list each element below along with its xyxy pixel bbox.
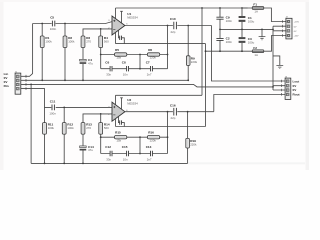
wire inverting input line: [83, 29, 112, 36]
svg-text:C5: C5: [50, 16, 54, 20]
resistor R16: [147, 131, 159, 143]
svg-text:120k: 120k: [150, 56, 157, 60]
svg-text:R15: R15: [115, 131, 121, 135]
svg-text:15k: 15k: [116, 138, 121, 142]
wire Lout routing: [212, 26, 286, 82]
connector J1 (input): [15, 72, 21, 95]
svg-text:100k: 100k: [48, 126, 55, 130]
svg-text:120k: 120k: [150, 138, 157, 142]
svg-text:2n7: 2n7: [147, 157, 152, 161]
capacitor comp loop bottom: [119, 117, 125, 127]
node bus-R9: [187, 79, 189, 81]
node bus-R1: [41, 79, 43, 81]
wire 0V mid rail: [220, 28, 273, 30]
wire input top line: [33, 22, 112, 24]
node 0V-C9: [219, 29, 221, 31]
resistor R19: [186, 111, 197, 164]
resistor R1: [40, 24, 52, 81]
resistor R4: [99, 29, 109, 55]
capacitor comp loop: [119, 30, 125, 43]
wire V+ rail: [116, 7, 248, 9]
wire R4 node down to cap row: [100, 55, 102, 69]
svg-text:C10: C10: [170, 17, 176, 21]
svg-text:F1: F1: [253, 3, 257, 7]
node output-R9: [187, 25, 189, 27]
svg-text:C12: C12: [105, 145, 111, 149]
svg-text:100k: 100k: [67, 126, 74, 130]
wire top ground bus: [42, 79, 188, 81]
node 0V-bottom-drop: [30, 84, 32, 86]
node Vminus-C3: [241, 50, 243, 52]
wire 0V drop to bottom rail: [30, 84, 32, 163]
wire feedback row bottom: [101, 136, 168, 138]
capacitor C8: [122, 60, 129, 76]
svg-text:220k: 220k: [190, 143, 197, 147]
node row-left bottom: [100, 136, 102, 138]
svg-text:NE5534: NE5534: [127, 15, 138, 19]
wire bottom ground rail: [31, 162, 188, 164]
svg-text:R5: R5: [115, 48, 119, 52]
wire op-amp pin5 stub: [120, 11, 123, 23]
connector J2 (power): [286, 17, 293, 39]
node input-R1: [41, 23, 43, 25]
svg-text:100k: 100k: [68, 40, 75, 44]
svg-text:NE5534: NE5534: [127, 102, 138, 106]
capacitor C15: [122, 145, 129, 161]
wire bottom pin8 rail: [116, 94, 203, 96]
capacitor C9: [216, 8, 232, 29]
node minus-R4: [100, 28, 102, 30]
capacitor C7: [146, 60, 153, 76]
svg-text:33n: 33n: [106, 73, 111, 77]
resistor R9: [186, 25, 197, 81]
wire capacitor row: [101, 68, 168, 70]
svg-text:22p: 22p: [171, 116, 176, 120]
node 0V-ground: [261, 29, 263, 31]
wire op-amp pin8 to rail: [115, 95, 117, 105]
svg-text:47u: 47u: [88, 62, 93, 66]
resistor R5: [115, 48, 127, 60]
wire 0V long line from J1 pin3: [21, 84, 273, 87]
resistor R3: [81, 36, 91, 48]
svg-text:C11: C11: [50, 100, 56, 104]
svg-text:100n: 100n: [50, 27, 57, 31]
node Vplus-C1: [241, 7, 243, 9]
wire output line bottom: [125, 111, 214, 113]
node 0V-C1: [241, 29, 243, 31]
wire V- line top opamp: [116, 43, 206, 45]
capacitor C14 electrolytic: [80, 134, 94, 163]
node output-feedback: [167, 25, 169, 27]
svg-text:C8: C8: [122, 60, 126, 64]
wire 0V pin2 to bus: [21, 79, 42, 81]
capacitor C10 series: [170, 17, 177, 34]
node 0V-rail-drop: [272, 29, 274, 31]
connector J3 (output): [285, 77, 291, 100]
node Vminus-C2: [219, 50, 221, 52]
resistor R2: [63, 24, 75, 81]
node output-feedback bottom: [167, 111, 169, 113]
node rail-R11: [44, 163, 46, 165]
node caprow-mid bottom: [139, 153, 141, 155]
svg-text:560: 560: [104, 126, 109, 130]
fuse F1: [252, 3, 264, 14]
wire 0V stubs to J2: [273, 26, 286, 31]
node caprow-mid: [139, 68, 141, 70]
wire V- line bottom opamp: [116, 126, 206, 128]
capacitor C1 electrolytic: [239, 8, 255, 29]
resistor R11: [43, 107, 55, 163]
ground: [259, 29, 266, 39]
node Vplus-C9: [219, 7, 221, 9]
wire V+ vertical to bottom channel: [201, 8, 203, 95]
node feedback-row-right: [167, 54, 169, 56]
svg-text:100n: 100n: [226, 19, 233, 23]
svg-text:100u: 100u: [248, 40, 255, 44]
resistor R13: [81, 122, 92, 134]
wire feedback vertical: [167, 26, 169, 69]
svg-text:270: 270: [86, 40, 91, 44]
wire V- rail: [205, 44, 207, 127]
svg-text:1A: 1A: [254, 53, 258, 57]
wire capacitor row bottom: [101, 153, 168, 155]
svg-text:33n: 33n: [106, 157, 111, 161]
svg-text:47u: 47u: [88, 148, 93, 152]
node 0V-J3: [272, 86, 274, 88]
svg-text:C16: C16: [170, 103, 176, 107]
wire op-amp pin5 stub bottom: [120, 98, 123, 110]
svg-text:Rin: Rin: [4, 84, 9, 88]
node input-R2: [64, 23, 66, 25]
node input-R12: [63, 107, 65, 109]
node feedback-row-right bottom: [167, 136, 169, 138]
svg-text:F2: F2: [253, 46, 257, 50]
wire op-amp pin4 down bottom: [115, 119, 117, 127]
capacitor C2: [216, 29, 232, 51]
svg-text:Rout: Rout: [293, 93, 300, 97]
capacitor C13: [146, 145, 153, 161]
svg-text:1A: 1A: [254, 10, 258, 14]
capacitor C16 series: [170, 103, 177, 120]
wire Lin input riser: [21, 24, 33, 77]
svg-text:15k: 15k: [116, 56, 121, 60]
node rail-C14: [82, 163, 84, 165]
capacitor C12: [105, 145, 112, 161]
resistor R6: [147, 48, 159, 60]
svg-text:C13: C13: [146, 145, 152, 149]
svg-text:100n: 100n: [49, 111, 56, 115]
op-amp U2: [108, 98, 138, 121]
wire op-amp pin4 down: [115, 32, 117, 43]
svg-text:560: 560: [104, 40, 109, 44]
wire F2 to J2 pin4: [264, 36, 286, 52]
node row-mid bottom: [139, 136, 141, 138]
wire row-to-caprow mid bottom: [139, 137, 141, 153]
svg-text:+15V: +15V: [294, 22, 300, 24]
wire output line: [125, 25, 212, 27]
resistor R15: [115, 131, 127, 143]
node bus-R2: [64, 79, 66, 81]
node Vplus-drop: [201, 7, 203, 9]
node output-R19: [187, 111, 189, 113]
resistor R12: [62, 107, 74, 163]
wire op-amp pin8 to V+ rail: [115, 8, 117, 19]
node Vminus-drop: [205, 50, 207, 52]
svg-text:C6: C6: [105, 60, 109, 64]
svg-text:-15V: -15V: [294, 36, 299, 38]
wire F1 to J2 pin1: [242, 8, 286, 22]
capacitor C4 electrolytic: [80, 48, 94, 81]
node minus-R14: [100, 113, 102, 115]
svg-text:100k: 100k: [45, 40, 52, 44]
svg-text:Lout: Lout: [293, 79, 300, 83]
svg-text:2n7: 2n7: [147, 73, 152, 77]
ground output: [273, 56, 283, 69]
svg-text:100n: 100n: [226, 40, 233, 44]
svg-text:22p: 22p: [171, 30, 176, 34]
wire 0V stubs to J3: [273, 86, 285, 90]
wire R14 node down to cap row bottom: [100, 137, 102, 153]
wire inverting input line bottom: [83, 114, 112, 123]
op-amp U1: [108, 12, 138, 35]
capacitor C6: [105, 60, 112, 76]
svg-text:C7: C7: [146, 60, 150, 64]
svg-text:10n: 10n: [123, 73, 128, 77]
svg-text:220k: 220k: [191, 60, 198, 64]
resistor R14: [99, 114, 110, 137]
node rail-R12: [63, 163, 65, 165]
capacitor C11: [49, 100, 56, 116]
wire 0V drop to output connector: [272, 26, 274, 90]
svg-text:100u: 100u: [248, 19, 255, 23]
svg-text:R16: R16: [148, 131, 154, 135]
capacitor C5: [50, 16, 57, 32]
faint jpeg edge bands: [0, 0, 4, 170]
node row-mid: [139, 54, 141, 56]
wire feedback vertical bottom: [167, 112, 169, 154]
wire Rin input line: [21, 89, 112, 108]
fuse F2: [252, 46, 264, 57]
wire Rout routing: [214, 95, 285, 112]
capacitor C3 electrolytic: [239, 29, 255, 51]
svg-text:270: 270: [86, 126, 91, 130]
svg-text:10n: 10n: [123, 157, 128, 161]
node row-left: [100, 54, 102, 56]
wire feedback row: [101, 54, 168, 56]
node bus-C4: [82, 79, 84, 81]
svg-text:R6: R6: [148, 48, 152, 52]
svg-text:C15: C15: [122, 145, 128, 149]
wire row-to-caprow mid: [139, 55, 141, 69]
